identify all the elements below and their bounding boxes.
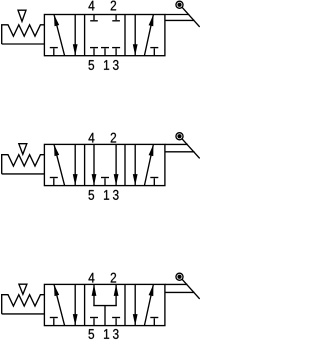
port 3 label (valve 1) [113,60,119,70]
vent triangle marker (valve 3) [19,284,27,294]
port 5 label (valve 3) [89,329,95,339]
valve 3 mid box blocked port 3 [112,318,120,326]
roller wheel (valve 1) [176,1,183,8]
valve 2 mid box blocked port 1 [101,178,109,186]
valve 2 mid box exhaust arrow 2-3 [114,144,119,185]
vent triangle marker (valve 1) [18,10,26,21]
valve 2 right box flow arrow 4-5 [133,144,138,185]
valve 2 right box blocked port 3 [150,178,158,186]
roller wheel (valve 2) [176,133,183,140]
port 3 label (valve 2) [113,190,119,200]
valve 1 mid box blocked port 4 [90,15,98,21]
valve 3 left box blocked port 5 [50,318,58,326]
port 4 label (valve 2) [88,133,94,143]
valve 3 right box flow arrow 4-5 [133,284,138,325]
port 1 label (valve 2) [104,190,109,200]
port 4 label (valve 1) [88,1,94,11]
valve 1 box division left [84,15,86,56]
port 1 label (valve 3) [104,329,109,339]
valve 2 box division right [124,144,126,185]
port 4 label (valve 3) [88,273,94,283]
valve 1 left box flow arrow 1-4 [54,15,65,56]
spring return actuator (valve 3) [2,295,45,314]
valve 1 right box blocked port 3 [150,48,158,56]
spring return actuator (valve 1) [2,25,45,44]
valve 2 body outline [44,144,164,185]
valve 2 mid box exhaust arrow 4-5 [92,144,97,185]
valve 3 mid box pressure path 1-4 [92,284,97,305]
valve 1 right box flow arrow 4-5 [133,15,138,56]
vent triangle marker (valve 2) [19,144,27,155]
valve 1 mid box blocked port 1 [101,48,109,56]
port 1 label (valve 1) [104,60,109,70]
valve 3 body outline [44,284,164,325]
port 3 label (valve 3) [113,329,119,339]
valve 3 left box flow arrow 1-4 [54,284,65,325]
valve 3 mid box pressure bridge [93,306,117,326]
valve 1 mid box blocked port 3 [112,48,120,56]
valve 2 left box flow arrow 2-3 [73,144,78,185]
roller lever actuator (valve 1) [165,7,200,27]
valve 3 mid box blocked port 5 [90,318,98,326]
valve 1 right box flow arrow 1-2 [144,15,153,56]
valve 3 left box flow arrow 2-3 [73,284,78,325]
valve 2 right box flow arrow 1-2 [144,144,153,185]
port 2 label (valve 3) [111,273,116,283]
valve 1 box division right [124,15,126,56]
port 5 label (valve 1) [89,60,95,70]
valve 3 right box flow arrow 1-2 [144,284,153,325]
valve 2 box division left [84,144,86,185]
roller wheel (valve 3) [176,273,183,280]
roller lever actuator (valve 2) [165,139,200,159]
valve 1 left box flow arrow 2-3 [73,15,78,56]
valve 1 mid box blocked port 2 [112,15,120,21]
valve 2 left box blocked port 5 [50,178,58,186]
roller lever actuator (valve 3) [165,279,200,299]
valve 3 right box blocked port 3 [150,318,158,326]
port 5 label (valve 2) [89,190,95,200]
valve 1 left box blocked port 5 [50,48,58,56]
valve 1 mid box blocked port 5 [90,48,98,56]
valve 2 left box flow arrow 1-4 [54,144,65,185]
port 2 label (valve 1) [111,1,116,11]
port 2 label (valve 2) [111,133,116,143]
valve 3 box division right [124,284,126,325]
valve 3 box division left [84,284,86,325]
spring return actuator (valve 2) [2,155,45,174]
valve 3 mid box pressure path 1-2 [114,284,119,305]
valve 1 body outline [44,15,164,56]
